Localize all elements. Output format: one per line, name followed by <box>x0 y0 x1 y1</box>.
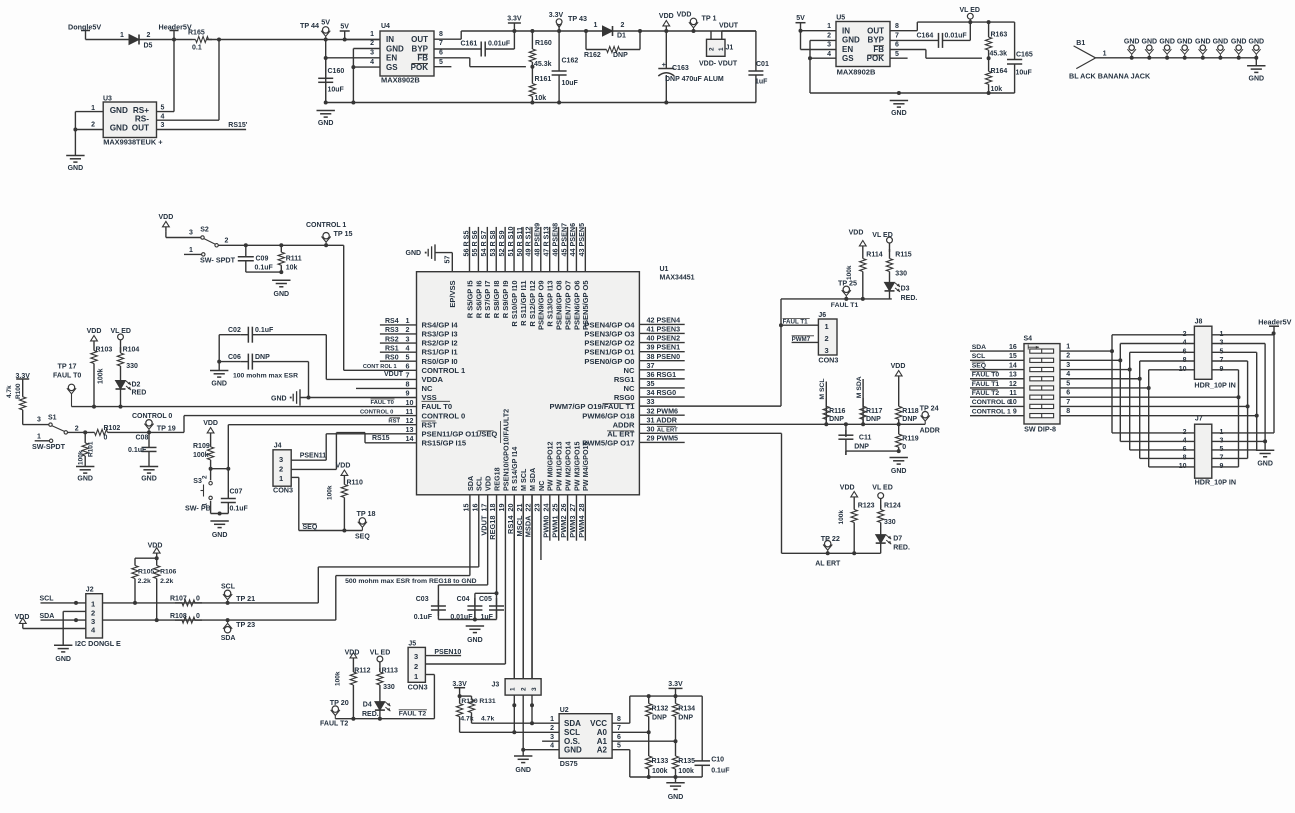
wire node down to U3 pin4 <box>218 40 220 121</box>
svg-text:100k: 100k <box>78 450 85 465</box>
svg-text:VDD: VDD <box>15 614 30 621</box>
svg-text:GND: GND <box>55 656 71 663</box>
svg-text:2: 2 <box>550 725 554 732</box>
wire S4 left pins <box>970 344 1025 416</box>
svg-text:500 mohm max ESR from REG: 500 mohm max ESR from REG18 to GND <box>345 578 477 585</box>
svg-text:SCL: SCL <box>221 584 236 591</box>
svg-text:16: 16 <box>1009 344 1017 351</box>
wire 5V to U5 IN <box>801 30 837 32</box>
testpoint TP23 <box>224 627 230 633</box>
wire S3 bottom <box>210 501 212 514</box>
wire U5 pin2 pin4 gnd <box>810 39 836 41</box>
junction R132 bottom <box>647 730 651 734</box>
testpoint TP21 <box>224 590 230 596</box>
junction D4 bottom <box>378 717 382 721</box>
wire R104 to D2 <box>120 372 122 381</box>
resistor R111 <box>280 245 282 252</box>
svg-text:R111: R111 <box>286 256 302 263</box>
power symbol VDD at R114 <box>859 241 866 246</box>
svg-text:TP 18: TP 18 <box>357 509 376 518</box>
svg-text:R113: R113 <box>382 668 398 675</box>
svg-text:10uF: 10uF <box>562 80 579 87</box>
svg-text:2: 2 <box>370 40 374 47</box>
svg-text:RS3: RS3 <box>385 327 399 334</box>
ic U1 MAX34451 <box>417 272 640 495</box>
power symbol Header5V at J8 <box>1269 325 1279 327</box>
capacitor C160 <box>325 58 327 78</box>
svg-text:RED.: RED. <box>362 711 379 718</box>
wire J3 pin2 down <box>522 695 524 750</box>
regulator U5 MAX8902B <box>836 22 890 67</box>
svg-text:11: 11 <box>406 407 414 416</box>
power symbol VDD at J2 <box>19 618 26 623</box>
svg-text:Dongle5V: Dongle5V <box>68 23 101 32</box>
svg-text:100k: 100k <box>678 768 694 775</box>
svg-text:PWM0: PWM0 <box>541 516 550 538</box>
svg-text:R119: R119 <box>902 436 918 443</box>
wire VSS to U1 pin9 <box>300 397 417 399</box>
svg-text:VDD: VDD <box>677 12 692 19</box>
svg-text:RS4: RS4 <box>385 318 399 325</box>
svg-text:SDA: SDA <box>564 719 581 728</box>
wire U2 VCC <box>612 722 630 724</box>
svg-text:45 PSEN7: 45 PSEN7 <box>559 223 568 257</box>
svg-text:3: 3 <box>550 734 554 741</box>
wire J4 pin1 SEQ <box>291 476 299 478</box>
svg-text:5V: 5V <box>340 24 349 31</box>
svg-text:1: 1 <box>120 32 124 39</box>
svg-text:2: 2 <box>225 238 229 245</box>
svg-text:1: 1 <box>510 687 517 691</box>
svg-text:IN: IN <box>842 27 850 36</box>
capacitor C06 <box>241 361 249 363</box>
svg-text:10uF: 10uF <box>328 87 345 94</box>
svg-text:3.3V: 3.3V <box>452 681 467 688</box>
svg-text:46 PSEN8: 46 PSEN8 <box>550 223 559 257</box>
wire SCL row U2 <box>460 731 559 733</box>
connector J6 CON3 <box>818 319 837 355</box>
junction R101 top <box>83 430 87 434</box>
svg-text:GND: GND <box>842 36 860 45</box>
svg-text:U3: U3 <box>103 96 112 103</box>
svg-text:5: 5 <box>895 51 899 58</box>
svg-text:BYP: BYP <box>412 44 429 53</box>
power symbol VLED at R124 <box>878 493 884 499</box>
svg-text:RED.: RED. <box>893 545 910 552</box>
svg-text:FB: FB <box>417 54 428 63</box>
connector J5 CON3 <box>408 647 425 682</box>
svg-text:29 PWM5: 29 PWM5 <box>647 434 679 443</box>
led D4 <box>375 702 385 711</box>
wire C06 to VSS <box>308 362 310 398</box>
svg-text:TP 17: TP 17 <box>58 362 77 371</box>
testpoint TP15 <box>323 233 329 239</box>
svg-text:34 RSG0: 34 RSG0 <box>647 388 677 397</box>
ground J3 <box>522 750 524 756</box>
svg-text:POK: POK <box>411 63 429 72</box>
rail 3.3V U2 <box>630 695 702 697</box>
svg-text:5: 5 <box>439 59 443 66</box>
svg-text:R104: R104 <box>123 347 140 354</box>
svg-text:17: 17 <box>479 504 488 512</box>
power symbol VDD at R109 <box>207 428 214 433</box>
switch S2 SW-SPDT <box>201 236 204 239</box>
ground R101 <box>76 466 94 468</box>
testpoint TP19 <box>146 420 152 426</box>
svg-text:U1: U1 <box>660 266 669 273</box>
svg-text:R118: R118 <box>902 408 918 415</box>
svg-text:BYP: BYP <box>868 36 885 45</box>
svg-text:VDUT: VDUT <box>479 515 488 536</box>
power symbol VDD at R112 <box>350 653 357 658</box>
wire J4 pin3 PSEN11 <box>291 459 326 461</box>
svg-text:VDUT: VDUT <box>719 23 739 30</box>
power symbol VDD at R123 <box>851 492 858 497</box>
svg-text:13: 13 <box>1009 372 1017 379</box>
svg-text:R S12/GP I12: R S12/GP I12 <box>528 281 537 327</box>
resistor R106 <box>156 558 158 565</box>
svg-text:57: 57 <box>443 256 452 264</box>
ic U1 right pin names <box>550 321 636 448</box>
svg-text:4: 4 <box>161 113 165 120</box>
svg-text:11: 11 <box>1009 390 1017 397</box>
svg-text:VSS: VSS <box>422 393 437 402</box>
wire U1 pin8 NC stub <box>356 387 417 389</box>
svg-text:7: 7 <box>895 32 899 39</box>
svg-text:R133: R133 <box>652 758 669 765</box>
svg-text:FAUL T1: FAUL T1 <box>783 319 809 326</box>
svg-text:MAX9938TEUK +: MAX9938TEUK + <box>103 138 163 147</box>
svg-text:GND: GND <box>1257 460 1273 467</box>
svg-text:C06: C06 <box>228 354 241 361</box>
svg-text:2: 2 <box>406 325 410 334</box>
svg-text:52 R S9: 52 R S9 <box>497 231 506 257</box>
wire VDUT to U1 pin7 <box>326 378 416 380</box>
resistor R118 <box>898 381 900 406</box>
svg-text:1: 1 <box>414 672 418 681</box>
power symbol VDD at R110 <box>341 470 348 475</box>
ic U1 left overlines <box>422 400 451 402</box>
svg-text:J8: J8 <box>1195 318 1203 325</box>
svg-text:3: 3 <box>1066 362 1070 369</box>
svg-text:41 PSEN3: 41 PSEN3 <box>647 325 681 334</box>
svg-text:CON3: CON3 <box>273 486 293 495</box>
jumper J3 <box>505 679 541 695</box>
svg-text:DNP: DNP <box>866 416 881 423</box>
resistor R108 <box>175 619 182 621</box>
junction R116 bottom <box>824 422 828 426</box>
wire U1 right stubs <box>639 324 684 442</box>
svg-text:GND: GND <box>141 476 157 483</box>
wire EN to 5V <box>800 31 802 50</box>
svg-text:PWM4: PWM4 <box>577 515 586 538</box>
svg-text:21: 21 <box>515 504 524 512</box>
svg-text:18: 18 <box>488 504 497 512</box>
wire VDD to S2 pin3 <box>165 232 167 238</box>
svg-text:51 R S10: 51 R S10 <box>506 227 515 257</box>
diode D5 <box>129 35 139 45</box>
svg-text:R106: R106 <box>160 569 176 576</box>
svg-text:4.7k: 4.7k <box>481 716 494 723</box>
svg-text:2.2k: 2.2k <box>138 578 151 585</box>
svg-text:REG18: REG18 <box>488 516 497 540</box>
svg-text:VDD: VDD <box>148 543 163 550</box>
svg-text:2: 2 <box>1066 353 1070 360</box>
svg-text:CON3: CON3 <box>818 356 838 365</box>
labels U1 bottom pins <box>462 504 586 540</box>
svg-text:7: 7 <box>617 725 621 732</box>
svg-text:RS0: RS0 <box>385 354 399 361</box>
wire S4 to J8 J7 left columns <box>1060 335 1194 467</box>
wire U4 pin1 IN <box>345 39 380 41</box>
svg-text:R100: R100 <box>15 383 22 399</box>
svg-text:SW- PB: SW- PB <box>185 504 211 513</box>
svg-text:EP/VSS: EP/VSS <box>448 281 457 308</box>
ground U5 <box>897 91 901 95</box>
svg-text:6: 6 <box>406 362 410 371</box>
svg-text:PSEN10/GPO10/FAULT2: PSEN10/GPO10/FAULT2 <box>501 409 510 491</box>
junction R134 bottom <box>674 739 678 743</box>
svg-text:VL ED: VL ED <box>872 232 893 239</box>
svg-text:2: 2 <box>827 32 831 39</box>
svg-text:CONTROL 1: CONTROL 1 <box>972 408 1011 415</box>
ground banana rail <box>1255 58 1257 66</box>
resistor R112 <box>352 663 354 672</box>
svg-text:R160: R160 <box>535 40 552 47</box>
junction TP19 <box>147 430 151 434</box>
junction R130 top <box>458 694 462 698</box>
svg-text:PW M4/GPO16: PW M4/GPO16 <box>581 441 590 491</box>
svg-text:RED: RED <box>132 390 147 397</box>
svg-text:10: 10 <box>1009 399 1017 406</box>
svg-text:FAUL T1: FAUL T1 <box>972 381 1000 388</box>
svg-text:C164: C164 <box>917 33 934 40</box>
wire U2 A1 <box>612 740 675 742</box>
wire S2 pin2 CONTROL_1 <box>218 244 343 246</box>
svg-text:VDD: VDD <box>87 328 102 335</box>
junction R134 top <box>674 694 678 698</box>
svg-text:100 mohm max ESR: 100 mohm max ESR <box>233 373 298 380</box>
svg-text:S1: S1 <box>48 415 57 422</box>
svg-text:0.01uF: 0.01uF <box>488 41 511 48</box>
junction D1 anode <box>584 29 588 33</box>
svg-text:2: 2 <box>147 32 151 39</box>
svg-text:1: 1 <box>91 600 95 609</box>
wire U1 bottom pins short <box>470 495 585 679</box>
ground rail U4 section <box>326 102 756 104</box>
svg-text:C10: C10 <box>711 757 724 764</box>
svg-text:1uF: 1uF <box>755 79 768 86</box>
wire R102 to TP19 node <box>110 431 184 433</box>
svg-text:REG18: REG18 <box>492 467 501 491</box>
junction C160 bottom <box>324 101 328 105</box>
wire R131 bottom to SDA <box>471 716 473 723</box>
svg-text:EN: EN <box>386 54 397 63</box>
svg-text:RS15/GP I15: RS15/GP I15 <box>422 439 467 448</box>
wire banana jack gnd rail <box>1095 57 1256 59</box>
svg-text:8: 8 <box>406 380 410 389</box>
svg-text:VDD: VDD <box>840 485 855 492</box>
resistor R104 <box>120 340 122 352</box>
wire U4 FB to divider <box>434 57 470 59</box>
junction FB divider <box>530 65 534 69</box>
wire ALERT from U1 pin30 <box>639 432 781 434</box>
svg-text:RED.: RED. <box>901 295 918 302</box>
svg-text:4: 4 <box>406 343 410 352</box>
wire U5 OUT riser <box>890 30 917 32</box>
svg-text:GND: GND <box>891 110 907 117</box>
resistor R117 <box>862 398 864 406</box>
svg-text:R S13/GP I13: R S13/GP I13 <box>546 281 555 327</box>
svg-text:PWM6/GP O18: PWM6/GP O18 <box>582 411 634 420</box>
wire R109 to C07 node <box>211 468 229 470</box>
svg-text:R S6/GP I6: R S6/GP I6 <box>474 281 483 319</box>
svg-text:SW DIP-8: SW DIP-8 <box>1024 425 1056 434</box>
svg-text:13: 13 <box>406 425 414 434</box>
junction TP1 <box>692 29 696 33</box>
wire J3 pin3 down <box>531 695 533 723</box>
switch S1 SW-SPDT <box>49 423 52 426</box>
svg-text:R S10/GP I10: R S10/GP I10 <box>510 281 519 327</box>
resistor R130 <box>459 696 461 703</box>
junction R132 top <box>647 694 651 698</box>
svg-text:SCL: SCL <box>972 353 986 360</box>
svg-text:NC: NC <box>624 366 635 375</box>
svg-text:VDD: VDD <box>336 463 351 470</box>
ground C08 <box>140 466 158 468</box>
wire SDA row U2 <box>472 722 560 724</box>
svg-text:27: 27 <box>568 504 577 512</box>
junction U4 GS <box>351 65 355 69</box>
svg-text:2: 2 <box>91 122 95 129</box>
svg-text:DNP: DNP <box>613 52 628 59</box>
svg-text:RSG1: RSG1 <box>614 375 635 384</box>
svg-text:PSEN3/GP O3: PSEN3/GP O3 <box>584 330 634 339</box>
svg-text:R101: R101 <box>88 441 95 457</box>
svg-text:0.1uF: 0.1uF <box>255 265 274 272</box>
wire ADDR from U1 pin31 <box>639 423 925 425</box>
svg-text:1: 1 <box>370 31 374 38</box>
svg-text:1: 1 <box>279 474 283 483</box>
svg-text:R S9/GP I9: R S9/GP I9 <box>501 281 510 319</box>
svg-text:0: 0 <box>196 613 200 620</box>
svg-text:VDUT: VDUT <box>384 371 404 378</box>
svg-text:R114: R114 <box>866 252 882 259</box>
connector J2 I2C DONGLE <box>86 594 103 638</box>
svg-text:PSEN8/GP O8: PSEN8/GP O8 <box>555 281 564 330</box>
power symbol VLED at R113 <box>377 656 383 662</box>
ground ADDR <box>890 457 908 459</box>
svg-text:PSEN4/GP O4: PSEN4/GP O4 <box>584 321 635 330</box>
svg-text:A0: A0 <box>597 728 608 737</box>
svg-text:R117: R117 <box>866 408 882 415</box>
svg-text:CONTROL 0: CONTROL 0 <box>972 399 1011 406</box>
svg-text:PW M3/GPO15: PW M3/GPO15 <box>572 441 581 491</box>
svg-text:32 PWM6: 32 PWM6 <box>647 406 679 415</box>
junction EN tap <box>324 56 328 60</box>
svg-text:+: + <box>662 60 667 69</box>
svg-text:PWM1: PWM1 <box>550 516 559 538</box>
regulator U4 MAX8902B <box>380 31 434 76</box>
svg-text:3: 3 <box>161 122 165 129</box>
junction TP15 <box>324 243 328 247</box>
ground reg caps <box>466 625 484 627</box>
junction TP43 <box>557 29 561 33</box>
svg-text:330: 330 <box>126 363 138 370</box>
testpoint TP17 <box>68 384 74 390</box>
svg-text:R S5/GP I5: R S5/GP I5 <box>465 281 474 319</box>
junction R160 top <box>530 29 534 33</box>
gnd testpoint 6 <box>0 0 1 1</box>
wire U4 pin3 EN <box>326 57 380 59</box>
led D7 <box>876 535 886 544</box>
wire C11 bottom <box>846 450 899 452</box>
svg-text:RS-: RS- <box>135 115 149 124</box>
resistor R131 <box>471 696 473 699</box>
svg-text:RS1/GP I1: RS1/GP I1 <box>422 348 459 357</box>
svg-text:GND: GND <box>318 120 334 127</box>
wire RS15 to U1 pin14 <box>364 433 366 443</box>
testpoint TP25 <box>843 286 849 292</box>
svg-text:GND: GND <box>1124 39 1140 46</box>
junction R163 R164 <box>987 56 991 60</box>
svg-text:PWM2: PWM2 <box>559 516 568 538</box>
svg-text:33: 33 <box>647 397 655 406</box>
rail FAULT2 <box>335 718 434 720</box>
svg-text:9: 9 <box>406 389 410 398</box>
wire U2 A2 <box>612 749 630 751</box>
ic U1 top pin names <box>448 281 590 330</box>
resistor R101 <box>84 432 86 443</box>
svg-text:30: 30 <box>647 424 655 433</box>
svg-text:3: 3 <box>37 417 41 424</box>
connector J4 CON3 <box>273 450 291 486</box>
ic U2 DS75 <box>559 714 612 759</box>
svg-text:FAUL T2: FAUL T2 <box>320 721 348 728</box>
svg-text:OUT: OUT <box>411 35 428 44</box>
svg-text:55 R S6: 55 R S6 <box>470 231 479 257</box>
wire U4 OUT to 3.3V rail <box>434 38 461 40</box>
wire U2 pin3 stub <box>542 740 559 742</box>
svg-text:3.3V: 3.3V <box>549 12 564 19</box>
connector J8 HDR_10P IN <box>1194 326 1212 379</box>
svg-text:MAX8902B: MAX8902B <box>381 76 420 85</box>
power symbol 5V at U5 <box>796 22 806 24</box>
svg-text:6: 6 <box>895 42 899 49</box>
svg-text:PSEN0/GP O0: PSEN0/GP O0 <box>584 357 634 366</box>
power symbol 3.3V at R132 <box>669 687 683 689</box>
svg-text:1: 1 <box>594 22 598 29</box>
svg-text:S2: S2 <box>200 227 209 234</box>
svg-text:R S8/GP I8: R S8/GP I8 <box>492 281 501 319</box>
svg-text:0: 0 <box>196 596 200 603</box>
svg-text:M SDA: M SDA <box>856 376 863 398</box>
svg-text:GND: GND <box>1142 39 1158 46</box>
junction R114 bottom <box>861 297 865 301</box>
svg-text:45.3k: 45.3k <box>990 51 1008 58</box>
svg-text:RSG0: RSG0 <box>614 393 635 402</box>
resistor R165 <box>192 39 196 41</box>
switch S3 SW-PB <box>210 469 212 481</box>
junction R109 bottom <box>209 467 213 471</box>
resistor R119 <box>898 424 900 434</box>
svg-text:2: 2 <box>621 22 625 29</box>
wire Dongle5V to D5 <box>86 39 130 41</box>
gnd testpoint 2 <box>0 0 1 1</box>
svg-text:C04: C04 <box>457 596 470 603</box>
wire U3 pin3 OUT net RS15' <box>157 129 247 131</box>
svg-text:4: 4 <box>370 59 374 66</box>
